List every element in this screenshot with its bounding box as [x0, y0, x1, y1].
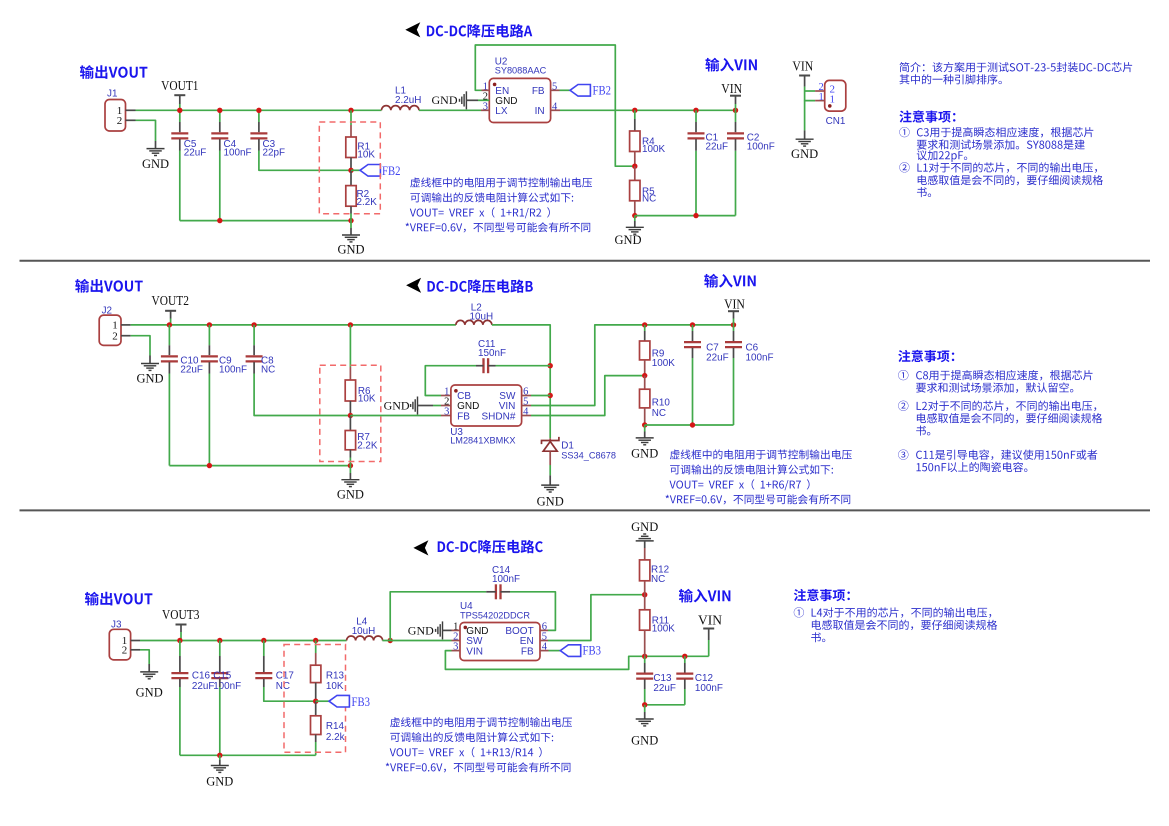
- svg-text:GND: GND: [631, 734, 658, 748]
- svg-text:TPS54202DDCR: TPS54202DDCR: [460, 611, 530, 621]
- svg-text:VIN: VIN: [466, 646, 483, 657]
- svg-text:NC: NC: [652, 408, 666, 419]
- svg-text:FB: FB: [532, 86, 545, 97]
- svg-text:GND: GND: [136, 372, 163, 386]
- svg-text:J1: J1: [107, 89, 118, 100]
- svg-text:VIN: VIN: [724, 297, 745, 312]
- svg-text:100K: 100K: [642, 144, 665, 155]
- svg-text:SY8088AAC: SY8088AAC: [495, 66, 547, 76]
- svg-text:R13: R13: [326, 671, 345, 682]
- svg-text:2.2k: 2.2k: [326, 732, 345, 743]
- svg-text:1: 1: [830, 94, 836, 106]
- svg-text:100nF: 100nF: [747, 141, 775, 152]
- svg-text:C17: C17: [276, 670, 294, 681]
- svg-text:GND: GND: [631, 520, 658, 534]
- svg-text:GND: GND: [206, 775, 233, 789]
- svg-text:C16: C16: [192, 670, 211, 681]
- svg-text:GND: GND: [432, 93, 458, 107]
- svg-text:2.2uH: 2.2uH: [395, 95, 421, 106]
- svg-text:GND: GND: [142, 157, 169, 171]
- svg-text:2.2K: 2.2K: [357, 440, 378, 451]
- svg-text:100nF: 100nF: [213, 681, 241, 692]
- svg-text:100nF: 100nF: [219, 365, 247, 376]
- svg-text:10K: 10K: [357, 150, 375, 161]
- svg-text:FB2: FB2: [593, 82, 612, 97]
- svg-text:FB2: FB2: [382, 163, 401, 178]
- svg-text:GND: GND: [136, 685, 163, 699]
- svg-text:10K: 10K: [326, 681, 344, 692]
- svg-text:R14: R14: [326, 721, 345, 732]
- svg-text:22pF: 22pF: [263, 147, 286, 158]
- svg-text:FB3: FB3: [352, 694, 371, 709]
- svg-text:150nF: 150nF: [478, 348, 506, 359]
- svg-text:C15: C15: [213, 670, 232, 681]
- svg-text:FB: FB: [521, 646, 534, 657]
- svg-text:2: 2: [112, 331, 118, 343]
- svg-text:GND: GND: [631, 447, 658, 461]
- svg-text:VIN: VIN: [721, 81, 742, 96]
- svg-text:CN1: CN1: [826, 116, 846, 127]
- svg-text:100nF: 100nF: [695, 683, 723, 694]
- svg-text:10K: 10K: [358, 394, 376, 405]
- svg-text:22uF: 22uF: [706, 141, 729, 152]
- svg-text:NC: NC: [642, 194, 656, 205]
- svg-text:2.2K: 2.2K: [357, 197, 378, 208]
- svg-text:22uF: 22uF: [653, 683, 676, 694]
- svg-text:NC: NC: [651, 574, 665, 585]
- svg-text:VOUT1: VOUT1: [161, 78, 198, 93]
- svg-text:1: 1: [818, 92, 823, 103]
- svg-text:100nF: 100nF: [492, 574, 520, 585]
- svg-text:GND: GND: [537, 495, 564, 509]
- svg-text:GND: GND: [337, 243, 364, 257]
- svg-text:10uH: 10uH: [352, 626, 376, 637]
- svg-text:100K: 100K: [652, 358, 675, 369]
- svg-text:3: 3: [444, 407, 449, 418]
- svg-text:VIN: VIN: [698, 614, 722, 629]
- svg-text:LX: LX: [495, 106, 508, 117]
- svg-text:SS34_C8678: SS34_C8678: [561, 450, 616, 460]
- svg-text:VIN: VIN: [792, 59, 813, 74]
- svg-text:FB: FB: [457, 411, 470, 422]
- svg-text:GND: GND: [408, 623, 434, 637]
- svg-text:FB3: FB3: [583, 643, 602, 658]
- svg-text:100nF: 100nF: [746, 352, 774, 363]
- svg-text:VOUT2: VOUT2: [152, 293, 189, 308]
- svg-text:NC: NC: [276, 681, 290, 692]
- svg-text:100K: 100K: [652, 624, 675, 635]
- svg-text:VOUT3: VOUT3: [162, 607, 200, 622]
- svg-text:J3: J3: [111, 620, 122, 631]
- svg-text:J2: J2: [102, 306, 112, 317]
- svg-text:R10: R10: [652, 397, 671, 408]
- svg-text:22uF: 22uF: [184, 147, 207, 158]
- svg-text:GND: GND: [384, 399, 410, 413]
- svg-text:2: 2: [122, 645, 128, 657]
- svg-text:NC: NC: [261, 365, 275, 376]
- svg-text:22uF: 22uF: [180, 365, 203, 376]
- svg-text:LM2841XBMKX: LM2841XBMKX: [450, 435, 515, 445]
- svg-text:IN: IN: [535, 106, 545, 117]
- svg-text:22uF: 22uF: [706, 352, 729, 363]
- svg-text:22uF: 22uF: [192, 681, 215, 692]
- svg-text:100nF: 100nF: [224, 147, 252, 158]
- svg-text:GND: GND: [337, 487, 364, 501]
- svg-text:GND: GND: [614, 233, 641, 247]
- svg-text:GND: GND: [791, 147, 818, 161]
- svg-text:SHDN#: SHDN#: [481, 411, 515, 422]
- svg-text:10uH: 10uH: [470, 311, 494, 322]
- svg-text:2: 2: [117, 115, 123, 127]
